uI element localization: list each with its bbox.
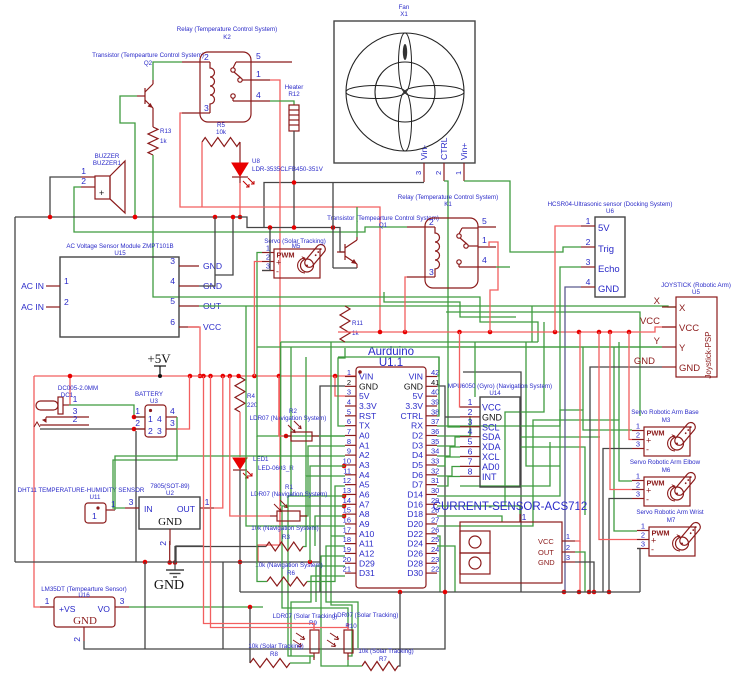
svg-text:AC IN: AC IN — [21, 281, 44, 291]
svg-text:Vin+: Vin+ — [459, 143, 469, 160]
svg-text:Y: Y — [679, 343, 686, 354]
relay K1 — [398, 194, 498, 288]
svg-text:D20: D20 — [407, 519, 423, 529]
svg-text:GND: GND — [634, 356, 655, 367]
wire LM35 GND pin2 — [84, 592, 445, 649]
svg-text:2: 2 — [429, 217, 434, 227]
wire M3 pin2 red — [629, 332, 632, 440]
svg-text:5: 5 — [170, 296, 175, 306]
current sensor ACS712 — [433, 501, 588, 583]
wire fan CTRL green to MPU SCL — [444, 181, 460, 427]
wire R3 left to ground — [175, 547, 266, 564]
svg-text:Servo Robotic Arm Wrist: Servo Robotic Arm Wrist — [636, 509, 704, 516]
svg-text:A1: A1 — [359, 440, 370, 450]
svg-text:D3: D3 — [412, 440, 423, 450]
wire buzzer pin1 to ground — [50, 177, 81, 217]
svg-text:LDR07 (Solar Tracking): LDR07 (Solar Tracking) — [273, 613, 338, 620]
svg-text:8: 8 — [468, 466, 473, 476]
wire M5 pin2 — [254, 262, 262, 377]
svg-text:39: 39 — [431, 398, 439, 407]
wire VCC pin6 — [188, 327, 200, 376]
svg-text:2: 2 — [636, 431, 640, 440]
wire gray mesh — [463, 372, 521, 592]
svg-text:U6: U6 — [606, 208, 614, 215]
svg-text:27: 27 — [431, 516, 439, 525]
wire pin42 VIN long green — [338, 357, 439, 376]
svg-text:GND: GND — [158, 516, 182, 528]
svg-text:CTRL: CTRL — [401, 411, 424, 421]
wire M7 pin2 red — [599, 332, 637, 540]
svg-text:VCC: VCC — [482, 403, 502, 413]
svg-text:U11: U11 — [90, 494, 101, 501]
wire M6 pin2 red — [610, 332, 632, 490]
svg-text:7: 7 — [468, 456, 473, 466]
svg-text:1: 1 — [454, 171, 463, 175]
wire R9 top from +5V — [204, 376, 315, 630]
svg-text:3: 3 — [566, 553, 570, 562]
svg-text:GND: GND — [598, 284, 619, 295]
wire HCSR04 Echo to Arduino RX — [437, 267, 581, 426]
wire vertical x145 — [144, 562, 146, 649]
wire battery pin2 vertical — [135, 431, 137, 562]
svg-text:4: 4 — [468, 427, 473, 437]
wire M7 pin3 gray — [637, 549, 640, 593]
svg-text:A9: A9 — [359, 519, 370, 529]
svg-text:12: 12 — [343, 476, 351, 485]
ground bus C bottom — [240, 591, 640, 593]
Arduino U1.1 — [343, 346, 440, 588]
svg-text:6: 6 — [170, 317, 175, 327]
svg-text:D4: D4 — [412, 450, 423, 460]
relay K2 — [177, 26, 277, 122]
svg-text:D31: D31 — [359, 568, 375, 578]
svg-text:U2: U2 — [166, 490, 174, 497]
servo M3 robotic arm base — [631, 409, 699, 456]
svg-text:3: 3 — [170, 256, 175, 266]
svg-text:5: 5 — [256, 51, 261, 61]
transistor Q1 — [327, 215, 439, 268]
resistor R6 navigation — [267, 577, 307, 586]
svg-text:HCSR04-Ultrasonic sensor (Dock: HCSR04-Ultrasonic sensor (Docking System… — [548, 201, 673, 208]
wire M3 pin3 gray — [603, 449, 632, 593]
svg-text:X: X — [654, 296, 661, 307]
wire mesh vertical — [618, 342, 620, 420]
svg-text:5: 5 — [482, 216, 487, 226]
wire M5 pin1 — [257, 253, 262, 348]
svg-text:1: 1 — [135, 406, 140, 416]
svg-text:SCL: SCL — [482, 422, 500, 432]
wire mesh green — [520, 447, 585, 515]
svg-text:1: 1 — [586, 216, 591, 226]
svg-text:GND: GND — [404, 381, 423, 391]
fan X1 — [334, 4, 475, 182]
svg-text:3: 3 — [129, 497, 134, 507]
wire HCSR04 5V to VCC bus — [555, 226, 581, 332]
wire to R8 — [249, 607, 251, 663]
wire mesh vertical — [582, 347, 584, 410]
wire R13 bottom long green — [153, 155, 430, 297]
svg-text:D22: D22 — [407, 529, 423, 539]
svg-text:38: 38 — [431, 407, 439, 416]
wire K1 pin1 to VCC bus — [489, 242, 498, 332]
svg-text:+: + — [99, 188, 104, 198]
wire gray loop — [215, 217, 233, 275]
resistor R11 1k — [340, 306, 350, 342]
ground bus B — [15, 561, 320, 563]
svg-text:1: 1 — [522, 512, 527, 522]
wire A7 to LDR R10 — [282, 506, 348, 623]
svg-text:5V: 5V — [598, 223, 610, 234]
svg-text:34: 34 — [431, 447, 439, 456]
svg-text:U5: U5 — [692, 289, 700, 296]
svg-text:AC Voltage Sensor Module ZMPT1: AC Voltage Sensor Module ZMPT101B — [66, 243, 173, 250]
wire mesh green — [474, 342, 476, 397]
wire D5 to MPU XCL — [437, 457, 460, 466]
svg-text:2: 2 — [204, 52, 209, 62]
wire fan Vin- black to ground net — [264, 183, 424, 228]
svg-text:10k: 10k — [216, 129, 227, 136]
wire A0 to LDR R2 — [286, 435, 345, 437]
wire R1 left from +5V — [230, 376, 270, 516]
svg-text:Echo: Echo — [598, 264, 620, 275]
wire K2 pin3 to VCC bus — [180, 113, 380, 332]
wire jack pin1 green to battery pin1 — [69, 405, 145, 417]
wire Q2 emitter to R13 — [152, 112, 154, 127]
svg-text:3: 3 — [347, 388, 351, 397]
svg-text:LDR07 (Solar Tracking): LDR07 (Solar Tracking) — [334, 612, 399, 619]
svg-text:1: 1 — [148, 414, 153, 424]
svg-text:RX: RX — [411, 421, 423, 431]
wire vertical x223 — [222, 562, 224, 649]
svg-text:R3: R3 — [282, 534, 290, 541]
svg-text:1: 1 — [482, 235, 487, 245]
svg-text:GND: GND — [203, 261, 222, 271]
svg-text:5: 5 — [468, 437, 473, 447]
svg-text:R1: R1 — [285, 484, 293, 491]
svg-text:3: 3 — [636, 440, 640, 449]
svg-text:2: 2 — [158, 541, 168, 546]
servo M6 robotic arm elbow — [630, 459, 701, 506]
svg-text:D26: D26 — [407, 548, 423, 558]
svg-text:35: 35 — [431, 437, 439, 446]
long green mesh lines — [281, 341, 538, 343]
wire D24 down — [437, 546, 455, 592]
svg-text:A2: A2 — [359, 450, 370, 460]
svg-text:D7: D7 — [412, 480, 423, 490]
gray corner near 7805 — [176, 546, 203, 562]
wire LED1 to ground bus — [239, 470, 241, 592]
svg-text:AD0: AD0 — [482, 462, 500, 472]
svg-text:3.3V: 3.3V — [359, 401, 377, 411]
svg-text:10k (Solar Tracking): 10k (Solar Tracking) — [248, 643, 303, 650]
svg-text:DC005-2.0MM: DC005-2.0MM — [58, 385, 98, 392]
svg-text:1: 1 — [205, 497, 210, 507]
svg-text:3: 3 — [204, 103, 209, 113]
wire LM35 VO green — [129, 606, 263, 608]
svg-text:37: 37 — [431, 417, 439, 426]
svg-text:2: 2 — [641, 531, 645, 540]
svg-text:4: 4 — [482, 255, 487, 265]
wire A4 to R3 — [303, 476, 345, 547]
wire D31 down — [291, 576, 345, 656]
svg-text:D2: D2 — [412, 431, 423, 441]
svg-text:Transistor (Tempearture Contro: Transistor (Tempearture Control System) — [92, 52, 204, 59]
wire LED U8 to ground bus — [239, 183, 241, 217]
resistor R8 solar tracking — [250, 659, 290, 668]
svg-text:2: 2 — [64, 297, 69, 307]
svg-text:XDA: XDA — [482, 442, 501, 452]
svg-text:VCC: VCC — [640, 316, 660, 327]
svg-text:A11: A11 — [359, 539, 374, 549]
svg-text:1: 1 — [468, 397, 473, 407]
LDR R1 navigation — [251, 484, 328, 521]
HCSR04 ultrasonic sensor U6 — [548, 201, 673, 297]
wire D6 to MPU AD0 — [437, 467, 460, 477]
wire Q1 collector up — [356, 207, 358, 237]
svg-text:7805(SOT-89): 7805(SOT-89) — [150, 483, 189, 490]
svg-text:K1: K1 — [444, 201, 452, 208]
LDR R9 solar tracking — [273, 613, 338, 660]
svg-text:OUT: OUT — [177, 504, 196, 514]
servo M7 robotic arm wrist — [636, 509, 704, 556]
svg-text:A0: A0 — [359, 431, 370, 441]
svg-text:U16: U16 — [78, 592, 90, 599]
wire battery pin4 to 7805 IN — [113, 417, 177, 508]
wire mesh green — [520, 436, 600, 438]
svg-text:2: 2 — [347, 378, 351, 387]
svg-text:TX: TX — [359, 421, 370, 431]
wire 7805 GND down — [169, 541, 171, 563]
wire D29 down — [316, 566, 345, 602]
servo M5 solar tracking — [262, 238, 327, 278]
wire A11 to R9 bottom node — [326, 546, 358, 648]
wire R2 left from +5V — [279, 376, 284, 436]
svg-text:220: 220 — [247, 402, 258, 409]
wire OUT pin5 long green to joystick X — [199, 306, 676, 307]
wire mesh green braid — [384, 292, 516, 317]
wire A10 down — [331, 536, 352, 656]
svg-text:A6: A6 — [359, 490, 370, 500]
svg-text:2: 2 — [586, 237, 591, 247]
svg-text:1: 1 — [73, 394, 78, 404]
svg-text:GND: GND — [154, 578, 184, 593]
wire R4 to LED1 — [239, 412, 241, 457]
svg-text:2: 2 — [468, 407, 473, 417]
svg-text:VIN: VIN — [359, 372, 373, 382]
svg-text:1: 1 — [636, 472, 640, 481]
svg-text:GND: GND — [679, 363, 700, 374]
resistor R3 navigation — [266, 542, 303, 551]
svg-text:6: 6 — [347, 417, 351, 426]
svg-text:GND: GND — [482, 412, 503, 422]
svg-text:2: 2 — [81, 176, 86, 186]
svg-text:2: 2 — [135, 418, 140, 428]
resistor R13 1k — [148, 127, 158, 155]
svg-text:3: 3 — [636, 490, 640, 499]
svg-text:Q2: Q2 — [144, 60, 153, 67]
DC jack DC1 — [34, 385, 98, 427]
wire K1 pin4 to node — [496, 266, 510, 268]
wire MPU GND black — [445, 416, 460, 418]
wire joystick GND gray — [590, 367, 662, 592]
DHT11 sensor U11 — [18, 487, 145, 523]
svg-text:GND: GND — [538, 558, 555, 567]
ground symbol — [154, 563, 184, 593]
wire Arduino 5V pin3 to +5V bus — [335, 376, 345, 396]
svg-text:BUZZER1: BUZZER1 — [93, 160, 122, 167]
wire mesh green — [505, 322, 544, 506]
LDR R10 solar tracking — [327, 612, 398, 660]
svg-text:LED-0603_R: LED-0603_R — [258, 465, 294, 472]
wire A6 to LDR R9 — [288, 496, 345, 658]
svg-text:3: 3 — [170, 418, 175, 428]
wire Q1 emitter to ground — [333, 267, 357, 269]
svg-text:M3: M3 — [662, 417, 671, 424]
wire R6 left green — [257, 436, 267, 582]
svg-text:D30: D30 — [407, 568, 423, 578]
svg-text:R4: R4 — [247, 393, 255, 400]
svg-text:1: 1 — [64, 276, 69, 286]
svg-text:DHT11 TEMPERATURE-HUMIDITY SEN: DHT11 TEMPERATURE-HUMIDITY SENSOR — [18, 487, 145, 494]
wire K2 pin5 — [270, 61, 292, 63]
svg-text:Joystick-PSP: Joystick-PSP — [704, 331, 713, 378]
svg-text:2: 2 — [73, 414, 78, 424]
resistor R7 solar tracking — [362, 662, 398, 671]
wire mesh vertical to A4 row — [305, 357, 307, 476]
svg-text:1: 1 — [45, 596, 50, 606]
wire A3 down to ground bus — [310, 466, 345, 562]
wire R10 top from +5V — [211, 376, 349, 630]
AC voltage sensor module U15 — [21, 243, 222, 337]
transistor Q2 — [92, 52, 204, 112]
svg-text:3: 3 — [414, 171, 423, 175]
svg-text:X: X — [679, 303, 686, 314]
svg-text:R5: R5 — [217, 122, 225, 129]
wire D18 to current sensor — [437, 516, 502, 522]
wire A1 to LDR R1 — [301, 446, 345, 516]
svg-text:XCL: XCL — [482, 452, 500, 462]
LED U8 — [232, 142, 324, 187]
svg-text:VIN: VIN — [409, 372, 423, 382]
svg-text:D24: D24 — [407, 539, 423, 549]
svg-text:6: 6 — [468, 447, 473, 457]
wire MPU VCC red — [459, 332, 462, 407]
svg-text:1: 1 — [92, 511, 97, 521]
svg-text:13: 13 — [343, 486, 351, 495]
wire buzzer pin2 long green to relay K1 pin2 — [74, 187, 407, 232]
svg-text:3: 3 — [429, 267, 434, 277]
wire D22 down — [437, 536, 440, 592]
wire R8 right to R9 bottom — [290, 656, 314, 663]
svg-text:Servo Robotic Arm Elbow: Servo Robotic Arm Elbow — [630, 459, 701, 466]
wire D7 to MPU INT — [437, 477, 460, 487]
wire Arduino GND pin2 down — [320, 386, 345, 592]
svg-text:3: 3 — [157, 426, 162, 436]
svg-text:K2: K2 — [223, 34, 231, 41]
wire 7805 OUT up to +5V — [214, 376, 223, 508]
wire K2 pin4 to heater — [270, 101, 294, 105]
svg-text:3: 3 — [586, 257, 591, 267]
svg-text:Transistor (Tempearture Contro: Transistor (Tempearture Control System) — [327, 215, 439, 222]
wire fan Vin+ green to HCSR04 Trig — [464, 181, 581, 252]
svg-text:SDA: SDA — [482, 432, 501, 442]
svg-text:1: 1 — [256, 69, 261, 79]
svg-text:4: 4 — [170, 276, 175, 286]
wire Y net down to LDR R2 node — [257, 347, 284, 436]
wire sensor OUT green — [575, 552, 585, 592]
wire sensor GND gray — [575, 562, 594, 592]
svg-text:IN: IN — [144, 504, 153, 514]
svg-text:1k: 1k — [160, 138, 167, 145]
ground bus top — [15, 217, 345, 252]
wire X net down to A9 — [246, 306, 345, 526]
svg-text:VCC: VCC — [538, 537, 554, 546]
wire sensor VCC red — [575, 332, 580, 541]
svg-text:R13: R13 — [160, 128, 172, 135]
wire D3 to MPU SDA — [437, 437, 460, 446]
svg-text:MPU6050 (Gyro) (Navigation Sys: MPU6050 (Gyro) (Navigation System) — [448, 383, 552, 390]
svg-text:R8: R8 — [270, 651, 278, 658]
svg-text:R10: R10 — [345, 623, 357, 630]
svg-text:GND: GND — [73, 615, 97, 627]
wire D2 up — [437, 416, 470, 436]
svg-text:40: 40 — [431, 388, 439, 397]
svg-text:3: 3 — [468, 417, 473, 427]
heater R12 — [285, 84, 304, 131]
svg-text:A4: A4 — [359, 470, 370, 480]
svg-text:+VS: +VS — [59, 604, 76, 614]
svg-text:D14: D14 — [407, 490, 423, 500]
wire R2 right to A0 — [319, 435, 345, 437]
svg-text:AC IN: AC IN — [21, 302, 44, 312]
LED1 — [233, 456, 294, 478]
svg-text:A7: A7 — [359, 499, 370, 509]
svg-text:M5: M5 — [292, 243, 301, 250]
svg-text:U8: U8 — [252, 158, 260, 165]
svg-text:10k (Solar Tracking): 10k (Solar Tracking) — [358, 648, 413, 655]
wire DHT11 pin to Arduino A2 — [115, 456, 345, 510]
svg-text:Relay (Temperature Control Sys: Relay (Temperature Control System) — [398, 194, 498, 201]
wire K1 pin3 to VCC bus — [405, 277, 407, 332]
svg-text:2: 2 — [636, 481, 640, 490]
svg-text:U15: U15 — [114, 250, 126, 257]
svg-text:3: 3 — [641, 540, 645, 549]
svg-text:U1.1: U1.1 — [379, 357, 403, 369]
svg-text:2: 2 — [148, 426, 153, 436]
wire mesh green — [526, 342, 560, 466]
svg-text:4: 4 — [256, 90, 261, 100]
wire pin41 GND down to bus C — [437, 386, 445, 592]
wire A8 — [315, 516, 345, 546]
svg-text:U3: U3 — [150, 398, 158, 405]
svg-text:INT: INT — [482, 472, 497, 482]
svg-text:2: 2 — [566, 543, 570, 552]
svg-text:Heater: Heater — [285, 84, 304, 91]
svg-text:RST: RST — [359, 411, 377, 421]
wire heater R12 bottom to ground — [293, 131, 295, 228]
svg-text:-: - — [646, 495, 649, 505]
svg-text:D29: D29 — [359, 558, 375, 568]
VCC bus to joystick — [338, 327, 676, 332]
svg-text:BUZZER: BUZZER — [95, 153, 120, 160]
svg-text:D5: D5 — [412, 460, 423, 470]
wire mesh vertical to A10 row — [330, 342, 332, 536]
wire R5 left — [201, 142, 203, 207]
svg-text:1: 1 — [636, 422, 640, 431]
svg-text:4: 4 — [170, 406, 175, 416]
wire jack pin2 gray to battery pin2 — [40, 428, 145, 430]
battery U3 — [134, 391, 177, 437]
